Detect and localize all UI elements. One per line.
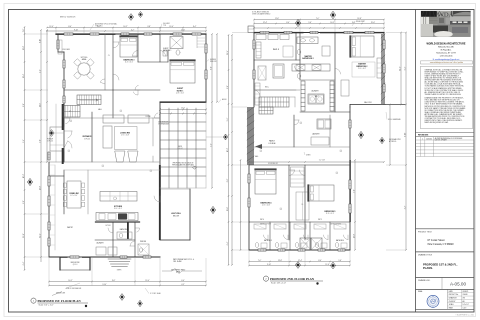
svg-text:PROJECT TITLE: PROJECT TITLE: [418, 231, 433, 233]
svg-text:11'-8" x 12'-4": 11'-8" x 12'-4": [326, 213, 335, 215]
svg-text:15'-0": 15'-0": [169, 26, 174, 28]
svg-text:4'-2": 4'-2": [181, 284, 185, 286]
svg-text:8'-0": 8'-0": [210, 66, 212, 70]
svg-text:SUITE 1: SUITE 1: [177, 91, 184, 93]
svg-text:02/06/21: 02/06/21: [463, 291, 469, 293]
svg-text:W.I.C.: W.I.C.: [315, 96, 320, 98]
svg-text:6'-4": 6'-4": [227, 241, 229, 245]
svg-text:15'-0" x 16'-2": 15'-0" x 16'-2": [358, 68, 367, 70]
svg-text:RIDGE VENT: RIDGE VENT: [356, 21, 365, 23]
svg-text:6'-4": 6'-4": [181, 280, 185, 282]
svg-text:UP: UP: [69, 111, 71, 113]
svg-text:PROPOSED 1ST & 2ND FL.: PROPOSED 1ST & 2ND FL.: [423, 262, 458, 266]
svg-text:10'-2": 10'-2": [330, 22, 335, 24]
svg-text:GUEST: GUEST: [163, 48, 169, 50]
svg-text:PROPOSED 2ND. FLOOR PLAN: PROPOSED 2ND. FLOOR PLAN: [270, 277, 315, 281]
svg-text:DRAWING TITLE: DRAWING TITLE: [418, 253, 433, 256]
svg-text:W.I.C. 2: W.I.C. 2: [273, 49, 279, 51]
svg-text:BEDROOM 5: BEDROOM 5: [325, 211, 336, 213]
svg-text:11'-6": 11'-6": [275, 18, 280, 20]
svg-text:3'-8": 3'-8": [112, 280, 116, 282]
svg-text:@ FL.0: @ FL.0: [73, 264, 78, 266]
svg-text:6'-4": 6'-4": [404, 66, 406, 70]
svg-text:PROPOSED 1ST. FLOOR PLAN: PROPOSED 1ST. FLOOR PLAN: [38, 299, 82, 303]
svg-text:11'-6": 11'-6": [325, 264, 330, 266]
svg-text:13'-8": 13'-8": [278, 260, 283, 262]
svg-text:67 Carter Street: 67 Carter Street: [428, 239, 445, 242]
svg-text:5'-6": 5'-6": [23, 139, 25, 143]
svg-text:16'-4" x 11'-0": 16'-4" x 11'-0": [114, 208, 123, 210]
svg-text:LIVING RM: LIVING RM: [120, 133, 130, 135]
svg-text:3'-8": 3'-8": [147, 26, 151, 28]
svg-text:E: worldesigndesign@gmail.net: E: worldesigndesign@gmail.net: [433, 58, 460, 61]
svg-text:THESE PLANS IS LIMITED TO ONE: THESE PLANS IS LIMITED TO ONE BUILDING.: [425, 93, 462, 96]
svg-text:6'-4": 6'-4": [193, 26, 197, 28]
svg-text:11'-6": 11'-6": [399, 66, 401, 71]
svg-text:1/4"=1'-0": 1/4"=1'-0": [463, 304, 470, 306]
svg-text:5'-6": 5'-6": [227, 117, 229, 121]
svg-text:5'-6": 5'-6": [308, 22, 312, 24]
svg-text:13'-8": 13'-8": [353, 233, 355, 238]
svg-text:BATHROOM 2: BATHROOM 2: [302, 57, 313, 60]
svg-text:7'-0": 7'-0": [316, 18, 320, 20]
svg-text:LOUNGE: LOUNGE: [268, 143, 276, 145]
svg-text:7'-0": 7'-0": [258, 260, 262, 262]
svg-text:DRAWING NO.: DRAWING NO.: [418, 279, 431, 282]
svg-text:13'-8": 13'-8": [357, 18, 362, 20]
svg-text:EGRESS: EGRESS: [210, 59, 216, 61]
svg-text:5'-6": 5'-6": [210, 143, 212, 147]
svg-text:WORLD DESIGN ARCHITECTURE: WORLD DESIGN ARCHITECTURE: [426, 43, 465, 46]
svg-text:KITCHEN: KITCHEN: [114, 206, 123, 208]
svg-text:12'-4": 12'-4": [23, 73, 25, 78]
svg-text:PORCH: PORCH: [47, 139, 54, 141]
svg-text:BEDROOM 3: BEDROOM 3: [124, 60, 135, 62]
svg-text:7'-0": 7'-0": [23, 28, 25, 32]
svg-text:3'-8": 3'-8": [227, 178, 229, 182]
svg-text:PROPOSED WOOD DECK W/: PROPOSED WOOD DECK W/: [173, 163, 194, 165]
svg-text:STEPS: STEPS: [117, 270, 122, 272]
svg-text:WDA: WDA: [438, 12, 454, 19]
svg-text:FOYER: FOYER: [146, 116, 151, 118]
svg-text:12'-4": 12'-4": [39, 233, 41, 238]
svg-text:@ FL.00: @ FL.00: [84, 138, 90, 140]
svg-text:WINDOW: WINDOW: [210, 61, 217, 63]
svg-text:9'-10": 9'-10": [267, 264, 272, 266]
svg-text:9'-10": 9'-10": [39, 38, 41, 43]
svg-text:12'-4": 12'-4": [227, 50, 229, 55]
svg-text:MUD ROOM: MUD ROOM: [71, 262, 80, 264]
svg-text:WS: WS: [463, 297, 465, 299]
svg-text:15'-0": 15'-0": [145, 280, 150, 282]
svg-text:9'-0" x 14'-0": 9'-0" x 14'-0": [70, 195, 78, 197]
svg-text:9'-10": 9'-10": [74, 29, 79, 31]
svg-text:1-917-555-0156: 1-917-555-0156: [440, 56, 453, 58]
svg-text:5 of 9: 5 of 9: [463, 307, 467, 309]
svg-text:13'-8": 13'-8": [39, 185, 41, 190]
svg-text:5'-6": 5'-6": [338, 260, 342, 262]
svg-text:W.I.C.: W.I.C.: [265, 87, 270, 89]
svg-text:200456: 200456: [463, 294, 468, 296]
svg-text:10/05/20: 10/05/20: [426, 138, 432, 140]
svg-text:9'-10": 9'-10": [102, 284, 107, 286]
svg-text:Scale: 1/4" = 1'-0": Scale: 1/4" = 1'-0": [39, 305, 54, 307]
svg-text:1: 1: [422, 138, 423, 140]
svg-text:8'-0": 8'-0": [286, 22, 290, 24]
svg-text:7'-0": 7'-0": [39, 139, 41, 143]
svg-text:William A. Shea MD: William A. Shea MD: [438, 46, 455, 49]
svg-text:PDR RM: PDR RM: [140, 241, 147, 243]
svg-text:2x10 HDR: 2x10 HDR: [163, 23, 170, 25]
svg-text:LIGHT WELL: LIGHT WELL: [171, 213, 181, 215]
svg-text:4'-2": 4'-2": [39, 69, 41, 73]
svg-text:11'-6": 11'-6": [39, 103, 41, 108]
svg-text:12'-4": 12'-4": [49, 26, 54, 28]
svg-text:@ FL.01: @ FL.01: [177, 148, 183, 150]
svg-text:SEAL: SEAL: [418, 290, 423, 293]
svg-text:15'-0": 15'-0": [23, 233, 25, 238]
svg-text:MENT AS REQUIRED BY LAW.: MENT AS REQUIRED BY LAW.: [425, 121, 449, 124]
svg-text:11'-6": 11'-6": [181, 29, 186, 31]
svg-text:12'-4": 12'-4": [263, 22, 268, 24]
svg-text:LINEN: LINEN: [306, 155, 310, 157]
svg-text:DECK: DECK: [178, 146, 182, 148]
svg-text:10'-2": 10'-2": [227, 147, 229, 152]
svg-text:REVISIONS: REVISIONS: [418, 135, 429, 137]
svg-text:DINING RM: DINING RM: [70, 193, 80, 195]
svg-text:12'-4": 12'-4": [298, 260, 303, 262]
svg-text:7'-0": 7'-0": [353, 189, 355, 193]
svg-text:3'-8": 3'-8": [23, 200, 25, 204]
svg-text:13'-8": 13'-8": [23, 45, 25, 50]
svg-text:BUTLER: BUTLER: [105, 225, 110, 227]
svg-text:LINE OF ROOF: LINE OF ROOF: [158, 122, 168, 124]
svg-text:@ FL.00: @ FL.00: [47, 141, 53, 143]
svg-text:8'-0": 8'-0": [227, 85, 229, 89]
svg-text:A-05.00: A-05.00: [450, 281, 467, 286]
svg-text:New Canaan, CT 06840: New Canaan, CT 06840: [428, 243, 455, 246]
svg-text:15'-0": 15'-0": [371, 22, 376, 24]
svg-text:BELOW: BELOW: [173, 215, 179, 217]
svg-text:WIC 5: WIC 5: [318, 219, 322, 221]
svg-text:12'-8" x 13'-2": 12'-8" x 13'-2": [176, 93, 185, 95]
svg-text:10'-2": 10'-2": [23, 173, 25, 178]
svg-text:Scale: 1/4" = 1'-0": Scale: 1/4" = 1'-0": [271, 283, 286, 285]
svg-text:9'-10": 9'-10": [404, 132, 406, 137]
svg-text:PROJECT No.: PROJECT No.: [449, 294, 459, 296]
svg-text:17'-2" x 15'-8": 17'-2" x 15'-8": [121, 135, 130, 137]
svg-text:22'-6": 22'-6": [181, 108, 185, 110]
svg-text:12'-0" x 14'-6": 12'-0" x 14'-6": [262, 205, 271, 207]
svg-text:11'-6" x 13'-0": 11'-6" x 13'-0": [125, 62, 134, 64]
svg-text:8'-0": 8'-0": [23, 103, 25, 107]
svg-text:WIC 4: WIC 4: [260, 219, 264, 221]
svg-text:NEW 6'-0" SLIDING DR: NEW 6'-0" SLIDING DR: [60, 17, 75, 19]
svg-text:10'-2": 10'-2": [123, 26, 128, 28]
svg-text:TYP. U.N.O.: TYP. U.N.O.: [95, 25, 103, 27]
svg-text:BEDROOM 2: BEDROOM 2: [357, 66, 368, 68]
svg-text:ROOF BELOW: ROOF BELOW: [268, 163, 278, 165]
svg-text:6'-4": 6'-4": [23, 261, 25, 265]
svg-text:85 Floyd Ave.: 85 Floyd Ave.: [441, 49, 452, 52]
svg-text:5'-0" CLR.: 5'-0" CLR.: [319, 160, 326, 162]
svg-text:Ronkonkoma, NY 11779: Ronkonkoma, NY 11779: [436, 53, 455, 55]
svg-text:PLANS.: PLANS.: [423, 266, 433, 270]
svg-text:8'-0": 8'-0": [68, 26, 72, 28]
svg-text:4'-2": 4'-2": [131, 29, 135, 31]
svg-text:CHKD BY: CHKD BY: [449, 301, 456, 303]
svg-text:4'-2": 4'-2": [404, 205, 406, 209]
svg-text:8'-0": 8'-0": [318, 260, 322, 262]
svg-text:BEDROOM 4: BEDROOM 4: [261, 202, 272, 205]
svg-text:10'-2": 10'-2": [68, 280, 73, 282]
svg-text:15'-0": 15'-0": [227, 206, 229, 211]
